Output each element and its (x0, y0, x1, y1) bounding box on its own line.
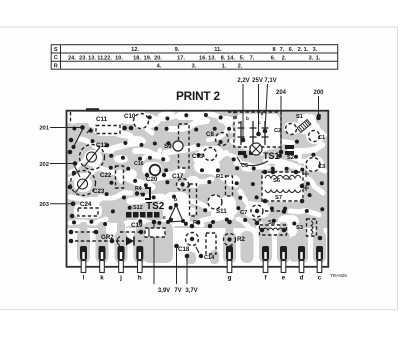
svg-text:6.: 6. (271, 55, 276, 61)
coil box S6 S7 (262, 172, 303, 201)
leader line 2,2V (242, 84, 244, 140)
svg-text:20.: 20. (154, 55, 162, 61)
svg-text:19.: 19. (144, 55, 152, 61)
svg-text:S8: S8 (268, 220, 276, 226)
svg-text:C8: C8 (206, 131, 214, 138)
capacitor C3 (306, 158, 320, 172)
capacitor C2 (286, 124, 297, 135)
svg-text:17.: 17. (177, 55, 185, 61)
tick near 201 pad (87, 128, 91, 133)
svg-text:203: 203 (39, 202, 49, 208)
svg-text:C7: C7 (240, 210, 247, 216)
svg-text:j: j (119, 275, 122, 282)
svg-text:9.: 9. (175, 47, 180, 53)
svg-text:1.: 1. (316, 55, 321, 61)
pin j (118, 246, 125, 260)
svg-text:6.: 6. (289, 47, 294, 53)
svg-text:R: R (54, 63, 58, 69)
leader line 7V (176, 246, 178, 284)
pin l (80, 246, 87, 260)
capacitor C18 (186, 233, 199, 246)
svg-text:5.: 5. (240, 55, 245, 61)
leader line 202 (50, 163, 75, 165)
table: component index (51, 45, 338, 69)
svg-text:204: 204 (276, 90, 287, 96)
svg-text:S11: S11 (216, 208, 227, 215)
svg-text:TS1: TS1 (263, 151, 280, 161)
svg-text:C14: C14 (204, 255, 215, 261)
resistor pack S12 (126, 212, 132, 218)
svg-text:C10: C10 (124, 113, 136, 120)
coil terminal crosses (303, 171, 309, 191)
svg-text:2,2V: 2,2V (237, 78, 249, 84)
svg-text:201: 201 (39, 126, 49, 132)
resistor S1 (striped) (297, 120, 311, 133)
svg-text:S2: S2 (287, 155, 294, 161)
svg-text:7.: 7. (250, 55, 255, 61)
wire dashes bottom left (75, 231, 94, 233)
svg-text:GR2: GR2 (101, 234, 114, 241)
leader line 203 (50, 203, 73, 205)
svg-text:1.: 1. (222, 63, 227, 69)
svg-text:S6: S6 (273, 178, 281, 184)
svg-text:C11: C11 (96, 116, 108, 123)
svg-text:C13: C13 (192, 153, 204, 160)
svg-text:2.: 2. (298, 47, 303, 53)
svg-text:g: g (228, 275, 232, 282)
leader line 3,7V (186, 256, 188, 284)
svg-text:200: 200 (313, 90, 324, 96)
wire top-left of TS1 (228, 112, 236, 119)
leader line 204 (280, 96, 282, 152)
capacitor C13 (204, 148, 217, 161)
pad labels 201 202 203 (39, 126, 49, 209)
svg-text:d: d (300, 275, 304, 282)
svg-text:16.: 16. (199, 55, 207, 61)
svg-text:b: b (174, 197, 177, 203)
capacitor C20 (150, 165, 161, 176)
svg-text:R4: R4 (135, 186, 142, 192)
pin d (298, 246, 305, 260)
capacitor C19 (145, 228, 165, 237)
svg-text:C19: C19 (131, 222, 143, 229)
svg-text:24.: 24. (68, 55, 76, 61)
svg-text:8.: 8. (221, 55, 226, 61)
svg-text:R3: R3 (193, 220, 200, 226)
capacitor C12 (trimmer) (80, 145, 105, 170)
svg-text:11.: 11. (214, 47, 222, 53)
transformer S2 (285, 145, 294, 149)
svg-text:3.: 3. (192, 63, 197, 69)
capacitor C10 (134, 114, 149, 129)
labels 3,9V 7V 3,7V (158, 288, 198, 294)
pin f (262, 246, 269, 260)
svg-text:3,9V: 3,9V (158, 288, 170, 294)
svg-text:C24: C24 (80, 201, 92, 208)
edge dashes (70, 112, 72, 123)
svg-text:8: 8 (272, 47, 275, 53)
svg-text:18.: 18. (133, 55, 141, 61)
svg-text:C2: C2 (274, 128, 281, 134)
resistor R2 (224, 234, 236, 246)
svg-text:e: e (163, 215, 166, 221)
capacitor C8 (216, 133, 229, 146)
leader line 7,1V (265, 84, 268, 131)
resistor R3 (190, 184, 197, 216)
svg-text:C18: C18 (178, 246, 190, 253)
resistor R1 (226, 176, 233, 196)
svg-text:23.: 23. (79, 55, 87, 61)
pin h (136, 246, 143, 260)
svg-text:C1: C1 (318, 135, 325, 141)
pin e (280, 246, 287, 260)
svg-text:1.: 1. (304, 47, 309, 53)
svg-text:S3: S3 (296, 225, 304, 231)
svg-text:S12: S12 (133, 205, 143, 211)
capacitor C7 (251, 205, 263, 217)
leader line 3,9V (153, 222, 155, 284)
capacitor C14 (206, 233, 216, 254)
svg-text:c: c (318, 275, 322, 282)
pin c (316, 246, 323, 260)
svg-text:25V: 25V (252, 78, 263, 84)
svg-text:e: e (238, 120, 241, 125)
svg-text:22.: 22. (104, 55, 112, 61)
wire near 202 (75, 166, 81, 177)
svg-text:k: k (100, 275, 104, 282)
svg-text:13.: 13. (208, 55, 216, 61)
capacitor C23 (trimmer) (71, 171, 96, 196)
coil S3 (307, 219, 317, 236)
svg-text:TRA928: TRA928 (330, 273, 347, 278)
svg-text:3.: 3. (313, 47, 318, 53)
leader line 201 (50, 127, 83, 129)
svg-text:C16: C16 (134, 161, 144, 167)
svg-text:C17: C17 (172, 173, 184, 180)
svg-text:202: 202 (39, 162, 49, 168)
jumper wire near 201 (74, 129, 84, 148)
svg-text:C22: C22 (100, 172, 112, 179)
leader line 25V (258, 84, 260, 134)
transistor S9 (179, 124, 190, 168)
svg-text:PRINT 2: PRINT 2 (176, 89, 220, 103)
svg-text:14.: 14. (227, 55, 235, 61)
capacitor C17 (177, 179, 189, 191)
TS1 internal leads with T-bars (238, 121, 269, 145)
border tick (86, 108, 99, 111)
svg-text:S1: S1 (296, 114, 303, 120)
solder pads (68, 113, 325, 258)
leader line 200 (318, 96, 320, 118)
coil S8 (260, 225, 287, 235)
svg-text:3,7V: 3,7V (185, 288, 197, 294)
svg-text:C23: C23 (93, 188, 105, 195)
PCB outline (67, 111, 329, 267)
svg-text:C12: C12 (96, 142, 108, 149)
transistor S11 (208, 195, 222, 209)
svg-text:13.: 13. (88, 55, 96, 61)
svg-text:S9: S9 (164, 143, 172, 150)
svg-text:7.: 7. (280, 47, 285, 53)
svg-text:l: l (83, 275, 85, 282)
svg-text:7,1V: 7,1V (264, 78, 276, 84)
svg-text:S: S (54, 47, 58, 53)
svg-text:7V: 7V (174, 288, 181, 294)
capacitor C22 (116, 166, 124, 188)
svg-text:b: b (246, 116, 249, 121)
svg-text:12.: 12. (131, 47, 139, 53)
svg-text:S7: S7 (275, 195, 282, 201)
capacitor C1 (309, 131, 320, 142)
transistor TS2 fan (168, 205, 183, 222)
svg-text:4.: 4. (157, 63, 162, 69)
svg-text:3.: 3. (309, 55, 314, 61)
svg-text:2.: 2. (238, 63, 243, 69)
svg-text:h: h (138, 275, 142, 282)
svg-text:e: e (282, 275, 286, 282)
svg-text:10.: 10. (115, 55, 123, 61)
svg-text:C: C (54, 55, 58, 61)
svg-text:C3: C3 (318, 164, 325, 170)
svg-text:TS2: TS2 (146, 201, 165, 212)
svg-text:C5: C5 (241, 163, 248, 169)
svg-text:C20: C20 (146, 176, 158, 183)
svg-text:c: c (258, 120, 261, 125)
svg-text:R2: R2 (237, 236, 245, 243)
transformer TS1 block (234, 112, 281, 147)
capacitor C11 (96, 126, 120, 134)
test-point labels 2,2V 25V 7,1V 204 200 (237, 78, 324, 96)
svg-text:2.: 2. (282, 55, 287, 61)
pin g (226, 246, 233, 260)
capacitor C24 (78, 208, 98, 216)
pin k (99, 246, 106, 260)
svg-text:R1: R1 (216, 174, 224, 180)
